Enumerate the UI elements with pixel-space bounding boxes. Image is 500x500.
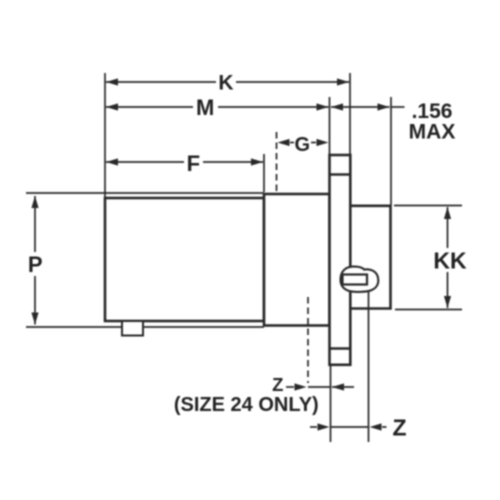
svg-text:M: M (196, 95, 214, 120)
svg-text:K: K (218, 72, 233, 95)
svg-text:G: G (295, 134, 311, 156)
svg-text:F: F (187, 151, 200, 176)
svg-text:(SIZE 24 ONLY): (SIZE 24 ONLY) (174, 394, 319, 416)
svg-text:MAX: MAX (409, 121, 456, 144)
svg-text:KK: KK (433, 248, 467, 274)
svg-text:P: P (28, 252, 43, 277)
svg-text:Z: Z (392, 415, 406, 441)
svg-text:Z: Z (272, 374, 283, 395)
